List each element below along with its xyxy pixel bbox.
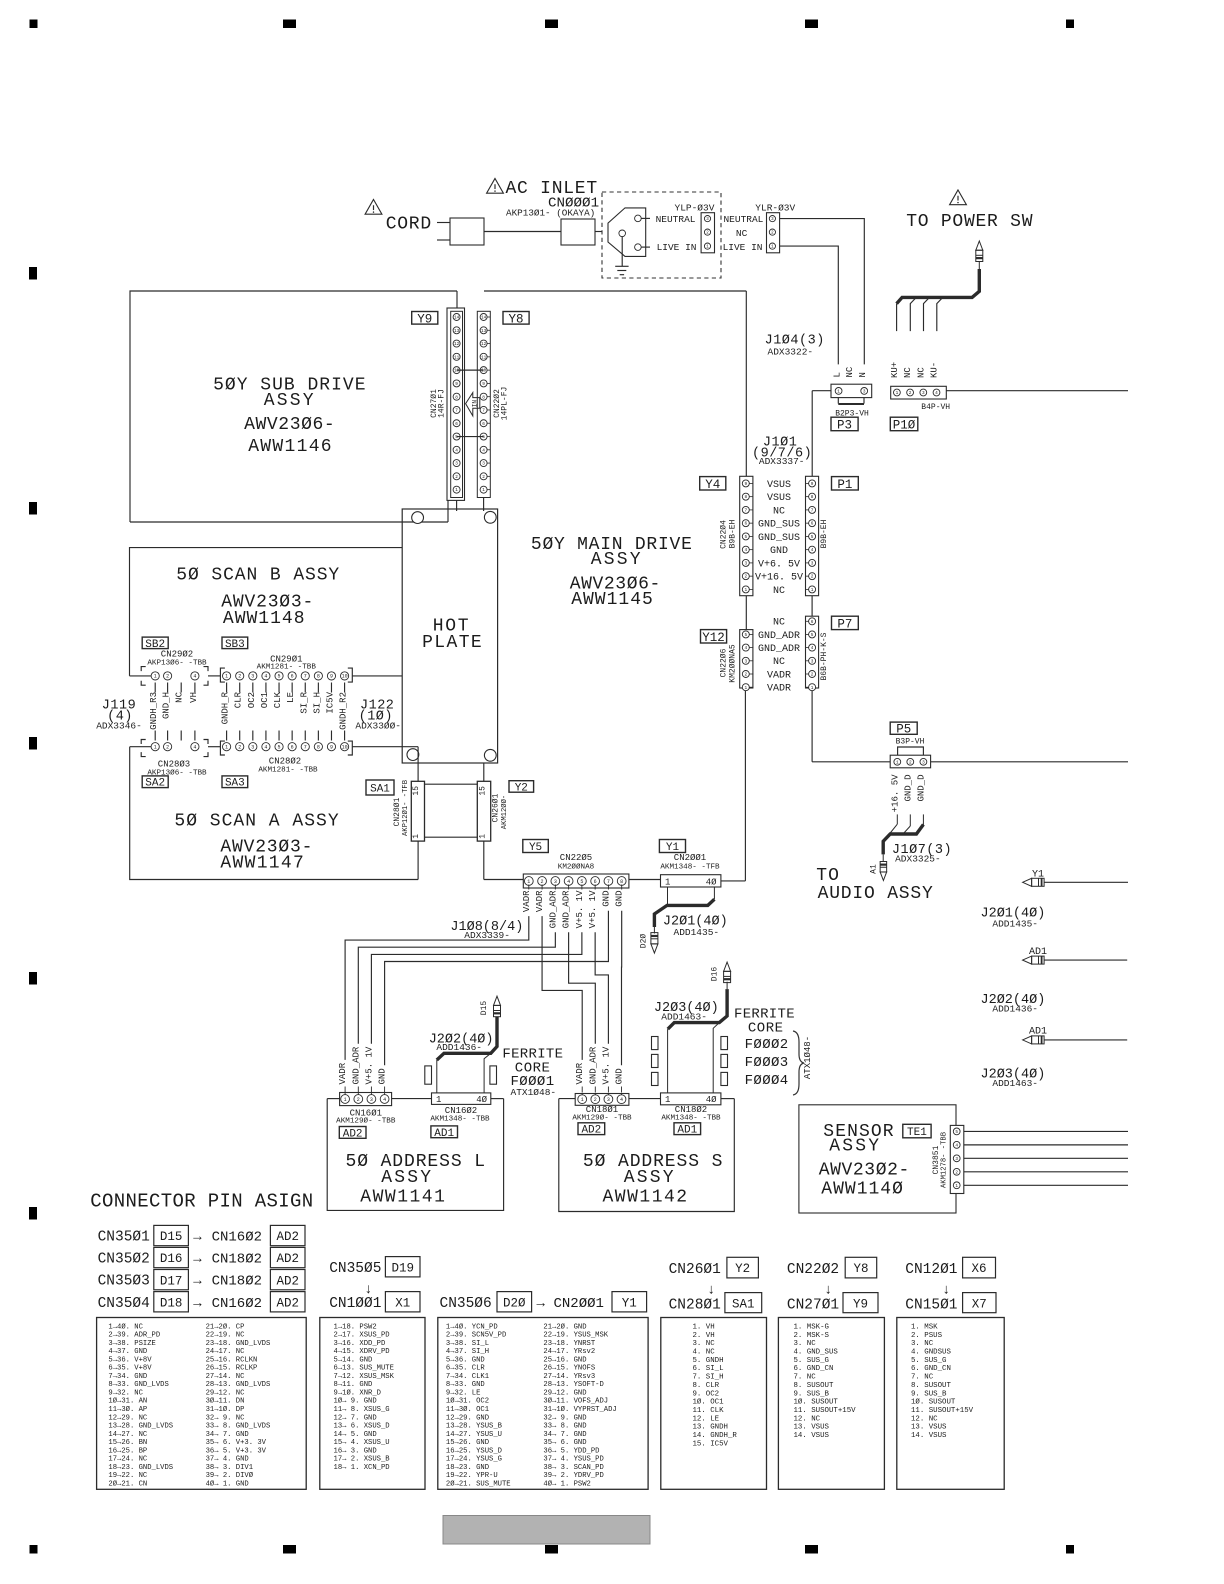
svg-text:10: 10	[481, 369, 487, 374]
svg-text:AKP12Ø1- -TFB: AKP12Ø1- -TFB	[401, 779, 410, 836]
svg-text:5: 5	[744, 633, 747, 638]
svg-text:CN22Ø4: CN22Ø4	[720, 520, 729, 549]
svg-text:11. CLK: 11. CLK	[693, 1407, 725, 1415]
svg-text:3: 3	[251, 745, 254, 751]
svg-text:5: 5	[955, 1130, 958, 1135]
svg-text:7: 7	[482, 409, 485, 414]
svg-text:2: 2	[238, 745, 241, 751]
svg-text:5→36. V+8V: 5→36. V+8V	[108, 1356, 152, 1364]
svg-text:CN35Ø4: CN35Ø4	[98, 1296, 150, 1312]
connector label AD1 (S)	[674, 1123, 701, 1135]
svg-text:4. GNDSUS: 4. GNDSUS	[911, 1348, 951, 1356]
svg-text:CNØØØ1: CNØØØ1	[548, 196, 599, 212]
svg-text:1: 1	[482, 488, 485, 493]
svg-text:16→25. YSUS_D: 16→25. YSUS_D	[446, 1447, 502, 1455]
wire P3 to P1 rail	[812, 390, 831, 392]
pin labels CN2205	[528, 885, 530, 890]
svg-text:X7: X7	[972, 1297, 987, 1311]
cable J107(3)	[896, 814, 898, 824]
svg-text:36→ 5. V+3. 3V: 36→ 5. V+3. 3V	[206, 1447, 267, 1455]
svg-text:TE1: TE1	[907, 1127, 927, 1139]
svg-text:ASSY: ASSY	[381, 1168, 433, 1188]
svg-text:Y8: Y8	[853, 1262, 868, 1276]
svg-text:VADR: VADR	[535, 890, 545, 912]
svg-text:AKM1278- -TBB: AKM1278- -TBB	[941, 1131, 949, 1188]
svg-text:KM2ØØNA5: KM2ØØNA5	[728, 644, 737, 683]
svg-text:AKM1348- -TBB: AKM1348- -TBB	[430, 1116, 490, 1124]
svg-text:GND_ADR: GND_ADR	[351, 1046, 361, 1084]
svg-text:39→ 2. YDRV_PD: 39→ 2. YDRV_PD	[543, 1472, 603, 1480]
svg-text:D16: D16	[160, 1252, 183, 1266]
svg-text:13→ 6. XSUS_D: 13→ 6. XSUS_D	[334, 1423, 390, 1431]
svg-text:2: 2	[955, 1170, 958, 1175]
svg-text:22→19. NC: 22→19. NC	[206, 1332, 246, 1340]
svg-text:11: 11	[481, 355, 487, 360]
svg-text:CN35Ø5: CN35Ø5	[329, 1261, 381, 1277]
svg-text:3: 3	[922, 391, 925, 396]
svg-text:6: 6	[291, 674, 294, 680]
svg-text:3: 3	[955, 1157, 958, 1162]
svg-text:37→ 4. GND: 37→ 4. GND	[206, 1456, 249, 1464]
svg-text:CN18Ø2: CN18Ø2	[675, 1105, 707, 1115]
svg-text:15. IC5V: 15. IC5V	[693, 1440, 729, 1448]
wire AKP1301 to AC inlet	[595, 231, 602, 233]
wire cord to AKP1301	[484, 231, 561, 233]
svg-text:1→4Ø. YCN_PD: 1→4Ø. YCN_PD	[446, 1322, 498, 1331]
svg-text:1Ø→31. AN: 1Ø→31. AN	[108, 1397, 147, 1406]
svg-text:Y2: Y2	[515, 782, 528, 794]
svg-text:3→16. XDD_PD: 3→16. XDD_PD	[334, 1340, 386, 1348]
svg-text:4: 4	[193, 674, 196, 680]
svg-text:2: 2	[744, 673, 747, 678]
wire P10 to right edge	[946, 390, 1128, 392]
svg-text:V+5. 1V: V+5. 1V	[575, 890, 585, 928]
svg-text:P7: P7	[837, 617, 852, 631]
svg-text:2: 2	[238, 674, 241, 680]
svg-text:2Ø→21. CN: 2Ø→21. CN	[108, 1479, 147, 1488]
svg-text:CN28Ø2: CN28Ø2	[269, 757, 301, 767]
svg-text:26→15. YNOFS: 26→15. YNOFS	[543, 1365, 595, 1373]
svg-text:AD2: AD2	[276, 1296, 299, 1310]
svg-text:2: 2	[541, 879, 544, 885]
svg-text:4→37. GND: 4→37. GND	[108, 1348, 147, 1356]
svg-text:11. SUSOUT+15V: 11. SUSOUT+15V	[911, 1407, 974, 1415]
svg-text:NC: NC	[773, 618, 785, 629]
svg-text:NEUTRAL: NEUTRAL	[656, 214, 696, 225]
wire CN2802 to scan A right edge	[352, 746, 418, 748]
svg-text:NC: NC	[903, 367, 913, 378]
svg-text:2: 2	[166, 745, 169, 751]
svg-text:LE: LE	[286, 692, 296, 703]
svg-text:24→17. NC: 24→17. NC	[206, 1348, 246, 1356]
svg-text:GND_D: GND_D	[916, 775, 926, 802]
svg-text:18→ 1. XCN_PD: 18→ 1. XCN_PD	[334, 1464, 390, 1472]
svg-text:8. SUSOUT: 8. SUSOUT	[911, 1382, 951, 1390]
svg-text:P5: P5	[896, 723, 911, 737]
connector CN2802 (SA3)	[220, 741, 225, 755]
svg-text:11. SUSOUT+15V: 11. SUSOUT+15V	[794, 1407, 857, 1415]
connector CN2206 KM200NA5 (Y12)	[740, 630, 753, 688]
svg-text:6→35. CLR: 6→35. CLR	[446, 1365, 486, 1373]
wire CN2803 to CN2802	[208, 746, 220, 748]
svg-text:P1: P1	[837, 478, 852, 492]
svg-text:VADR: VADR	[338, 1062, 348, 1084]
svg-text:8→11. GND: 8→11. GND	[334, 1381, 373, 1389]
pin table Y1 (CN2001)	[438, 1318, 648, 1490]
svg-text:9: 9	[744, 482, 747, 487]
board 50Y SUB DRIVE ASSY	[130, 291, 457, 522]
svg-text:CN18Ø1: CN18Ø1	[586, 1105, 618, 1115]
svg-text:9. SUS_B: 9. SUS_B	[911, 1390, 947, 1398]
svg-text:3Ø→11. VOFS_ADJ: 3Ø→11. VOFS_ADJ	[543, 1397, 608, 1406]
svg-text:AD2: AD2	[276, 1252, 299, 1266]
connector CN2902 (SB2)	[141, 667, 146, 672]
svg-text:VADR: VADR	[575, 1062, 585, 1084]
svg-text:GNDH_R: GNDH_R	[221, 691, 231, 724]
svg-text:NC: NC	[845, 366, 855, 377]
svg-text:6: 6	[482, 422, 485, 427]
svg-text:↓: ↓	[824, 1283, 832, 1299]
svg-text:AWW1146: AWW1146	[248, 437, 333, 457]
connector YLP-03V CN0001	[701, 213, 714, 253]
svg-text:38→ 3. DIV1: 38→ 3. DIV1	[206, 1464, 253, 1472]
svg-text:9. OC2: 9. OC2	[693, 1390, 720, 1398]
svg-text:V+5. 1V: V+5. 1V	[364, 1046, 374, 1084]
svg-text:1. VH: 1. VH	[693, 1323, 715, 1331]
svg-text:+16. 5V: +16. 5V	[890, 774, 900, 812]
svg-text:AKM129Ø- -TBB: AKM129Ø- -TBB	[336, 1117, 396, 1126]
board 50 ADDRESS S ASSY	[559, 1098, 575, 1100]
svg-text:9: 9	[330, 745, 333, 751]
svg-text:17→24. NC: 17→24. NC	[108, 1456, 148, 1464]
svg-text:ADD1463-: ADD1463-	[992, 1078, 1038, 1089]
svg-text:1Ø. SUSOUT: 1Ø. SUSOUT	[911, 1398, 956, 1407]
svg-text:B4P-VH: B4P-VH	[921, 403, 950, 412]
svg-text:6: 6	[594, 879, 597, 885]
svg-text:ATX1Ø48-: ATX1Ø48-	[511, 1087, 557, 1098]
wire hot plate to CN2601	[483, 763, 485, 781]
connector label AD2 (L)	[339, 1127, 366, 1139]
svg-text:8: 8	[482, 395, 485, 400]
wire power sw branch 2	[910, 297, 916, 331]
svg-text:4: 4	[744, 646, 747, 651]
wire tie Y9-Y8 pin5	[457, 436, 484, 438]
svg-text:16→ 3. GND: 16→ 3. GND	[334, 1447, 377, 1455]
svg-text:1: 1	[896, 760, 899, 765]
svg-text:11→3Ø. AP: 11→3Ø. AP	[108, 1405, 147, 1414]
svg-text:ADX33ØØ-: ADX33ØØ-	[355, 721, 401, 732]
wire sub box to CN2701	[456, 291, 458, 308]
svg-text:4: 4	[264, 745, 267, 751]
svg-text:1: 1	[744, 588, 747, 593]
wire P5 to right edge	[931, 761, 1128, 763]
svg-text:ADX3337-: ADX3337-	[759, 456, 805, 467]
svg-text:ASSY: ASSY	[829, 1137, 881, 1157]
svg-text:3: 3	[455, 462, 458, 467]
svg-text:AWV23Ø6-: AWV23Ø6-	[244, 415, 335, 435]
wire Y1 to right edge	[1044, 881, 1128, 883]
svg-text:CLK: CLK	[273, 691, 283, 708]
svg-text:KU+: KU+	[890, 362, 900, 378]
svg-text:ADD1435-: ADD1435-	[674, 927, 720, 938]
svg-text:11→3Ø. OC1: 11→3Ø. OC1	[446, 1405, 489, 1414]
svg-text:CN35Ø3: CN35Ø3	[98, 1274, 150, 1290]
plug pin NEUTRAL	[635, 215, 642, 222]
svg-text:CN18Ø2: CN18Ø2	[212, 1274, 262, 1290]
board 50 SCAN B ASSY	[130, 548, 403, 676]
svg-text:6. GND_CN: 6. GND_CN	[911, 1365, 951, 1373]
svg-text:12→29. NC: 12→29. NC	[108, 1414, 148, 1422]
svg-text:1: 1	[811, 588, 814, 593]
svg-text:V+6. 5V: V+6. 5V	[758, 559, 800, 570]
svg-text:21→2Ø. CP: 21→2Ø. CP	[206, 1322, 245, 1331]
connector label P10	[890, 417, 918, 431]
plug pin LIVE	[635, 244, 642, 251]
svg-text:11: 11	[454, 355, 460, 360]
svg-text:8: 8	[744, 495, 747, 500]
svg-text:1: 1	[896, 391, 899, 396]
svg-text:2. VH: 2. VH	[693, 1332, 715, 1340]
wire CN2202 to hot plate	[483, 498, 485, 512]
svg-text:→: →	[193, 1252, 202, 1268]
svg-text:KM2ØØNA8: KM2ØØNA8	[558, 863, 595, 872]
terminal A1	[880, 872, 887, 881]
svg-text:28→13. GND_LVDS: 28→13. GND_LVDS	[206, 1381, 271, 1389]
svg-text:V+16. 5V: V+16. 5V	[755, 573, 803, 584]
svg-text:ATX1Ø48-: ATX1Ø48-	[803, 1036, 813, 1079]
svg-text:3: 3	[811, 561, 814, 566]
wire J108 odd 3	[358, 932, 555, 1043]
svg-text:1: 1	[581, 1097, 584, 1103]
svg-text:1: 1	[955, 1184, 958, 1189]
svg-text:2→17. XSUS_PD: 2→17. XSUS_PD	[334, 1332, 390, 1340]
svg-text:AKM1348- -TFB: AKM1348- -TFB	[660, 864, 720, 872]
svg-text:2→39. ADR_PD: 2→39. ADR_PD	[108, 1332, 160, 1340]
svg-text:35→ 6. V+3. 3V: 35→ 6. V+3. 3V	[206, 1439, 267, 1447]
connector label P5	[890, 722, 917, 734]
svg-text:A1: A1	[870, 864, 879, 874]
svg-text:12. NC: 12. NC	[911, 1415, 938, 1423]
svg-text:3: 3	[863, 389, 866, 394]
svg-text:SA1: SA1	[732, 1297, 755, 1311]
svg-text:8. CLR: 8. CLR	[693, 1382, 720, 1390]
wire P1 to P7	[811, 596, 813, 617]
svg-text:NC: NC	[773, 657, 785, 668]
svg-text:→: →	[193, 1274, 202, 1290]
svg-text:IN: IN	[471, 400, 478, 408]
svg-text:9→1Ø. XNR_D: 9→1Ø. XNR_D	[334, 1388, 381, 1397]
svg-text:N: N	[858, 372, 868, 377]
connector label P1	[832, 477, 859, 490]
svg-text:34→ 7. GND: 34→ 7. GND	[206, 1431, 249, 1439]
svg-text:4: 4	[935, 391, 938, 396]
svg-text:2: 2	[909, 391, 912, 396]
svg-text:4Ø: 4Ø	[706, 1095, 717, 1105]
svg-text:NC: NC	[916, 367, 926, 378]
svg-text:33→ 8. GND_LVDS: 33→ 8. GND_LVDS	[206, 1423, 271, 1431]
svg-text:GND: GND	[615, 1068, 625, 1084]
AC plug symbol	[608, 208, 646, 257]
svg-text:1: 1	[412, 834, 421, 839]
svg-text:AWW1141: AWW1141	[360, 1187, 446, 1207]
svg-text:↓: ↓	[942, 1283, 950, 1299]
svg-text:VADR: VADR	[767, 670, 791, 681]
svg-text:AWW1145: AWW1145	[571, 590, 654, 610]
wire CN2902 to CN2901	[208, 675, 220, 677]
board 50Y MAIN DRIVE ASSY	[484, 290, 746, 292]
svg-text:GND_ADR: GND_ADR	[758, 644, 800, 655]
svg-text:GNDH_R3: GNDH_R3	[149, 692, 159, 730]
svg-text:25→16. GND: 25→16. GND	[543, 1356, 586, 1364]
svg-text:4: 4	[811, 548, 814, 553]
svg-text:CN18Ø2: CN18Ø2	[212, 1252, 262, 1268]
svg-text:ADD1436-: ADD1436-	[436, 1042, 482, 1053]
svg-text:CORD: CORD	[386, 215, 432, 235]
svg-text:7. SI_H: 7. SI_H	[693, 1374, 724, 1382]
svg-text:PLATE: PLATE	[422, 633, 483, 653]
connector label SA1	[366, 780, 394, 795]
svg-text:2: 2	[166, 674, 169, 680]
svg-text:8. SUSOUT: 8. SUSOUT	[794, 1382, 834, 1390]
connector CN3851 AKM1278- -TBB	[950, 1125, 964, 1193]
svg-text:23→18. YNRST: 23→18. YNRST	[543, 1340, 595, 1348]
svg-text:CN16Ø2: CN16Ø2	[212, 1230, 262, 1246]
connector CN1602 AKM1348- -TBB (AD1)	[432, 1093, 491, 1105]
svg-text:3. NC: 3. NC	[794, 1340, 817, 1348]
svg-text:1: 1	[225, 674, 228, 680]
svg-text:19→22. YPR-U: 19→22. YPR-U	[446, 1472, 498, 1480]
svg-text:AD1: AD1	[434, 1128, 454, 1140]
connector label Y8	[503, 312, 529, 325]
svg-text:15→26. BN: 15→26. BN	[108, 1439, 147, 1447]
svg-text:AKM129Ø- -TBB: AKM129Ø- -TBB	[572, 1114, 632, 1123]
svg-text:1: 1	[837, 389, 840, 394]
svg-text:2: 2	[482, 475, 485, 480]
svg-text:CN35Ø6: CN35Ø6	[440, 1296, 492, 1312]
wire scan A edge to CN2803	[130, 746, 151, 748]
board SENSOR ASSY	[799, 1105, 956, 1213]
svg-text:Y4: Y4	[705, 478, 720, 492]
connector CN2205 KM200NA8 (Y5)	[523, 874, 629, 888]
svg-text:3: 3	[811, 659, 814, 664]
svg-text:NC: NC	[773, 586, 785, 597]
svg-text:5Ø SCAN B ASSY: 5Ø SCAN B ASSY	[176, 566, 340, 586]
svg-text:3: 3	[370, 1097, 373, 1103]
svg-text:14→27. NC: 14→27. NC	[108, 1431, 148, 1439]
wire P7 to P5	[811, 688, 813, 762]
ferrite core F0001 right	[490, 1066, 497, 1084]
svg-text:LIVE IN: LIVE IN	[723, 242, 763, 253]
svg-text:GND_SUS: GND_SUS	[758, 533, 800, 544]
terminal D16	[724, 962, 731, 971]
svg-text:D19: D19	[391, 1261, 414, 1275]
connector AKP1301	[561, 219, 595, 245]
svg-text:AD2: AD2	[276, 1230, 299, 1244]
cable J202(40)	[437, 1017, 497, 1060]
svg-text:B9B-EH: B9B-EH	[820, 519, 829, 548]
svg-text:AWV23Ø2-: AWV23Ø2-	[819, 1161, 910, 1181]
warning triangle (power sw)	[950, 190, 967, 205]
svg-text:17→ 2. XSUS_B: 17→ 2. XSUS_B	[334, 1456, 391, 1464]
svg-text:CN28Ø3: CN28Ø3	[158, 760, 190, 770]
svg-text:Y1: Y1	[622, 1296, 637, 1310]
svg-text:3: 3	[607, 1097, 610, 1103]
footer bar	[443, 1516, 650, 1545]
svg-text:31→1Ø. DP: 31→1Ø. DP	[206, 1405, 245, 1414]
connector label Y5	[523, 840, 549, 853]
svg-text:1: 1	[455, 488, 458, 493]
svg-text:5: 5	[482, 435, 485, 440]
svg-text:Y5: Y5	[529, 842, 542, 854]
svg-text:4: 4	[744, 548, 747, 553]
connector label Y4	[700, 477, 726, 490]
svg-text:8: 8	[620, 879, 623, 885]
wire CN2901 to hot plate	[352, 675, 402, 677]
svg-text:NC: NC	[773, 506, 785, 517]
svg-text:9: 9	[330, 674, 333, 680]
svg-text:19→22. NC: 19→22. NC	[108, 1472, 148, 1480]
svg-text:SI_R: SI_R	[299, 691, 309, 713]
svg-text:6. SI_L: 6. SI_L	[693, 1365, 724, 1373]
svg-text:4Ø: 4Ø	[706, 878, 717, 888]
svg-text:1: 1	[811, 686, 814, 691]
svg-text:13. VSUS: 13. VSUS	[794, 1424, 830, 1432]
connector P5 B3P-VH	[898, 747, 924, 755]
svg-text:CN16Ø2: CN16Ø2	[212, 1296, 262, 1312]
svg-text:13. VSUS: 13. VSUS	[911, 1424, 947, 1432]
pin table SA1 (CN2801)	[661, 1318, 767, 1490]
pin table AD2/AD1 (CN1602)	[97, 1318, 307, 1490]
svg-text:FØØØ4: FØØØ4	[745, 1073, 789, 1089]
svg-text:GND_ADR: GND_ADR	[562, 890, 572, 928]
svg-text:CN12Ø1: CN12Ø1	[905, 1262, 957, 1278]
svg-text:3: 3	[251, 674, 254, 680]
svg-text:27→14. NC: 27→14. NC	[206, 1373, 246, 1381]
svg-text:2. PSUS: 2. PSUS	[911, 1332, 943, 1340]
svg-text:1: 1	[436, 1095, 441, 1105]
svg-text:3Ø→11. DN: 3Ø→11. DN	[206, 1397, 245, 1406]
connector label P3	[831, 417, 858, 431]
svg-text:1Ø→ 9. GND: 1Ø→ 9. GND	[334, 1397, 377, 1406]
main board bottom outline	[484, 879, 524, 881]
svg-text:Y12: Y12	[702, 631, 725, 645]
svg-text:24→17. YRsv2: 24→17. YRsv2	[543, 1348, 595, 1356]
terminal D20	[651, 944, 658, 953]
svg-text:8→33. GND: 8→33. GND	[446, 1381, 485, 1389]
svg-text:9: 9	[482, 382, 485, 387]
svg-text:18→23. GND: 18→23. GND	[446, 1464, 489, 1472]
svg-text:6: 6	[811, 522, 814, 527]
svg-text:CN26Ø1: CN26Ø1	[669, 1262, 721, 1278]
svg-text:1: 1	[744, 686, 747, 691]
connector P10 B4P-VH	[891, 386, 947, 399]
svg-text:2: 2	[357, 1097, 360, 1103]
svg-text:13: 13	[454, 329, 460, 334]
connector P7 B6B-PH-K-S	[806, 616, 819, 688]
svg-text:L: L	[832, 372, 842, 377]
svg-text:22→19. YSUS_MSK: 22→19. YSUS_MSK	[543, 1332, 608, 1340]
wire J108 odd 7	[385, 911, 609, 1066]
brace ferrite cores	[793, 1031, 804, 1095]
svg-text:VADR: VADR	[767, 684, 791, 695]
wire J108 even 8	[621, 911, 623, 1066]
svg-text:D18: D18	[160, 1296, 183, 1310]
svg-text:GND_H: GND_H	[162, 692, 172, 719]
wire scan B edge to CN2902	[130, 675, 152, 677]
svg-text:1: 1	[478, 834, 487, 839]
svg-text:23→18. GND_LVDS: 23→18. GND_LVDS	[206, 1340, 271, 1348]
svg-text:16→25. BP: 16→25. BP	[108, 1447, 147, 1455]
